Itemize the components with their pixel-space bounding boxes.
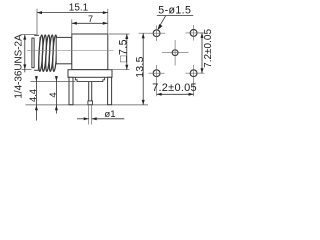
center pin <box>89 82 92 105</box>
svg-text:4: 4 <box>47 92 58 97</box>
thread dim extension bottom (barrel bottom extended) <box>22 68 32 70</box>
svg-text:□7.5: □7.5 <box>117 39 129 62</box>
dim o1 left arrow <box>77 118 89 120</box>
footprint hole BR <box>190 70 197 77</box>
pin extension lines <box>89 105 92 125</box>
footprint hole TL <box>153 30 160 37</box>
hole TR cross <box>186 25 203 41</box>
left leg <box>69 77 73 104</box>
dim 15.1 line <box>37 12 108 14</box>
body square block <box>72 34 108 70</box>
svg-text:ø1: ø1 <box>104 109 115 120</box>
wire leg-tip baseline <box>26 104 149 106</box>
hole BR cross <box>186 65 203 96</box>
neck between barrel and body <box>56 37 72 63</box>
boss bottom datum line <box>31 81 76 83</box>
svg-text:4.4: 4.4 <box>27 89 38 102</box>
right leg <box>108 77 112 104</box>
dim sq7.5 extension lines <box>109 34 130 70</box>
label 5-o1.5 underline <box>157 15 193 17</box>
dim 15.1 extension lines <box>37 9 108 35</box>
barrel end cap <box>32 38 35 68</box>
threads 1/4-36 <box>38 35 58 71</box>
svg-text:15.1: 15.1 <box>69 3 89 14</box>
dim right 7.2 line <box>201 33 203 73</box>
pin tip box <box>88 101 93 105</box>
hole center cross <box>162 40 189 66</box>
hole TL cross <box>139 26 166 42</box>
svg-text:7.2±0.05: 7.2±0.05 <box>152 82 197 94</box>
base plate <box>68 70 112 78</box>
svg-text:13.5: 13.5 <box>135 56 146 77</box>
dim 4 line <box>55 76 57 114</box>
insulator boss under base <box>75 77 104 81</box>
thread dim extension top <box>21 34 37 36</box>
label 5-o1.5 leader arrow <box>158 16 166 29</box>
svg-text:7.2±0.05: 7.2±0.05 <box>203 29 214 68</box>
svg-text:1/4-36UNS-2A: 1/4-36UNS-2A <box>13 34 24 99</box>
dim 13.5 line <box>142 33 144 105</box>
footprint hole TR <box>190 30 197 37</box>
barrel collar <box>34 35 39 70</box>
dim 4.4 line <box>35 76 37 121</box>
footprint hole BL <box>153 70 160 77</box>
svg-text:5-ø1.5: 5-ø1.5 <box>158 5 191 17</box>
dim right 7.2 extension ticks <box>197 33 205 73</box>
footprint hole center <box>172 50 178 56</box>
dim 7 extension line <box>71 19 73 36</box>
dim o1 right leader with arrow <box>92 118 125 120</box>
hole BL cross <box>149 65 165 96</box>
dim sq7.5 line <box>126 34 128 70</box>
dim bottom 7.2 line <box>157 93 194 95</box>
dim 7 line <box>72 22 108 24</box>
thread dim line <box>24 35 26 73</box>
axis center line <box>27 49 114 51</box>
svg-text:7: 7 <box>88 14 93 24</box>
